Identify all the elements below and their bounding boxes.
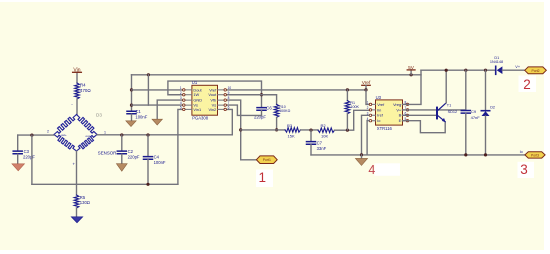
ground (C3) xyxy=(12,164,25,171)
svg-text:Port2: Port2 xyxy=(531,69,539,73)
wire: R2 to XTR pin2 xyxy=(335,110,370,130)
resistor R3 15K xyxy=(285,123,301,139)
node: C1 tap xyxy=(130,104,133,107)
U1 pin names xyxy=(193,87,202,112)
svg-text:2: 2 xyxy=(180,91,182,95)
node: C4 tap xyxy=(146,133,149,136)
svg-text:1: 1 xyxy=(259,170,267,185)
svg-text:Iref: Iref xyxy=(377,113,384,118)
U1 pin numbers right 10-6 xyxy=(228,86,232,110)
svg-text:R1: R1 xyxy=(350,101,355,105)
wire: XTR pin8 Vreg riser xyxy=(403,70,422,104)
bridge arm top-right xyxy=(77,115,98,135)
svg-text:2: 2 xyxy=(367,106,369,110)
IC U3 XTR116 xyxy=(376,95,403,131)
node: C6/Vout junction xyxy=(260,93,263,96)
wire: PGA pin2 loop to C6 xyxy=(168,81,262,107)
wire: V+ top rail (right section) xyxy=(421,69,495,71)
svg-text:D2: D2 xyxy=(490,106,495,110)
svg-text:1N4148: 1N4148 xyxy=(490,60,503,64)
wire: R5 to ground xyxy=(76,208,78,217)
resistor R5 130Ω xyxy=(74,195,90,208)
wire: R10 bottom xyxy=(276,117,278,129)
svg-text:Vin1: Vin1 xyxy=(193,107,201,112)
wire: ground/return rail (bottom right) xyxy=(311,154,525,156)
resistor R1 100K xyxy=(345,90,359,130)
svg-text:R4: R4 xyxy=(80,83,86,88)
ground (XTR) xyxy=(355,155,367,166)
power port Vin (top-left) xyxy=(73,67,82,73)
wire: PGA pin9 Vout to R10 xyxy=(227,95,277,105)
svg-text:C6: C6 xyxy=(266,105,272,110)
resistor R10 100KΩ xyxy=(274,104,290,117)
svg-text:1: 1 xyxy=(180,86,182,90)
svg-text:Iin: Iin xyxy=(377,107,381,112)
wire: bridge bottom to R5 xyxy=(76,151,78,195)
svg-text:V+: V+ xyxy=(515,65,521,69)
svg-text:100KΩ: 100KΩ xyxy=(279,109,290,113)
node: C7 tap xyxy=(309,129,312,132)
wire: collector to rail xyxy=(445,70,447,103)
svg-text:47nF: 47nF xyxy=(471,115,481,120)
svg-text:1: 1 xyxy=(104,131,106,135)
svg-text:10K: 10K xyxy=(321,134,328,139)
wire: bridge supply feed from power to R4 xyxy=(76,72,78,83)
wire: PGA pin8 to Port1 drop xyxy=(227,100,241,160)
U1 pins left xyxy=(182,90,192,110)
white patch 3 xyxy=(518,162,535,178)
wire: XTR pin5 emitter loop xyxy=(403,121,446,133)
U1 pin numbers left 1-5 xyxy=(180,86,182,110)
node: C9 bottom xyxy=(464,153,467,156)
capacitor C2 220pF xyxy=(117,135,140,164)
svg-text:D1: D1 xyxy=(494,56,499,60)
wire: R4 to bridge top xyxy=(76,99,78,115)
svg-text:Vin: Vin xyxy=(73,67,80,73)
ground (PGA GND pin) xyxy=(152,119,162,125)
svg-text:C7: C7 xyxy=(317,141,323,146)
bridge arm bottom-left xyxy=(54,135,77,152)
node: D2 top xyxy=(484,69,487,72)
wire: XTR pin3 to ground xyxy=(362,115,370,155)
wire: PGA pin3 to ground stem xyxy=(157,100,182,119)
capacitor C9 47nF xyxy=(461,70,480,155)
wire: riser to PGA pin5 xyxy=(178,109,183,184)
wire: Vref to XTR pin1 xyxy=(366,90,369,105)
node: Vfb/R3 junction xyxy=(239,128,242,131)
capacitor C6 220pF xyxy=(254,105,272,119)
svg-text:Vref: Vref xyxy=(377,102,385,107)
sensor bridge D3 (four-arm strain gauge) xyxy=(54,115,97,152)
wire: to PGA pin1 xyxy=(132,89,183,91)
svg-text:2: 2 xyxy=(47,130,49,134)
svg-text:3: 3 xyxy=(180,96,182,100)
wire: bridge left output to C3 xyxy=(18,134,54,136)
white patch 2 xyxy=(519,76,537,93)
svg-text:2: 2 xyxy=(523,77,531,92)
node: D2 bottom xyxy=(484,153,487,156)
wire: C6 bottom to PGA pin7 xyxy=(227,105,262,115)
svg-text:R3: R3 xyxy=(287,123,293,128)
svg-text:E: E xyxy=(399,118,402,123)
power port 5V xyxy=(407,65,415,77)
svg-text:9: 9 xyxy=(228,91,230,95)
svg-text:PGA308: PGA308 xyxy=(192,115,209,120)
wire: XTR pin7 to C9 xyxy=(403,109,466,111)
port Port3 xyxy=(525,152,545,158)
resistor R4 470Ω xyxy=(75,83,92,99)
wire: 5V top rail (left section) xyxy=(132,74,422,76)
U1 pins right xyxy=(218,90,227,110)
svg-text:T1: T1 xyxy=(447,104,451,108)
svg-text:6: 6 xyxy=(228,106,230,110)
wire: Port1 stub xyxy=(241,159,257,161)
resistor R2 10K xyxy=(318,123,335,139)
svg-text:V+: V+ xyxy=(396,107,402,112)
ground (R5) xyxy=(71,217,82,223)
svg-text:XTR116: XTR116 xyxy=(377,126,393,131)
svg-text:220pF: 220pF xyxy=(23,155,35,160)
svg-text:SD12: SD12 xyxy=(448,110,458,114)
svg-text:1W: 1W xyxy=(193,92,199,97)
svg-text:8: 8 xyxy=(228,96,230,100)
node: C9 top xyxy=(464,69,467,72)
svg-text:15K: 15K xyxy=(288,134,295,139)
transistor T1 SD12 xyxy=(437,103,457,122)
svg-text:U3: U3 xyxy=(376,95,382,100)
svg-text:10: 10 xyxy=(228,86,232,90)
white patch 1 xyxy=(256,170,273,188)
svg-text:5V: 5V xyxy=(408,65,415,71)
svg-text:C4: C4 xyxy=(154,154,160,159)
wire: riser pin4 to rail xyxy=(147,75,149,105)
svg-text:C3: C3 xyxy=(24,149,30,154)
wire: XTR pin6 to base xyxy=(403,114,437,116)
svg-text:SENSOR: SENSOR xyxy=(98,150,117,155)
ground (C1) xyxy=(126,121,136,127)
ground (C2) xyxy=(116,164,127,172)
svg-text:Vout: Vout xyxy=(208,92,217,97)
port Port2 xyxy=(525,67,547,74)
svg-text:100nF: 100nF xyxy=(154,160,166,165)
svg-text:B: B xyxy=(399,113,402,118)
node: collector on rail xyxy=(445,69,448,72)
svg-text:U1: U1 xyxy=(192,80,198,85)
wire: 5V drop to C1 / pin1 xyxy=(131,75,133,111)
node: Vref corner xyxy=(364,88,367,91)
node: R1 bottom junction xyxy=(346,129,349,132)
svg-text:Vreg: Vreg xyxy=(393,102,401,107)
node: ground stem xyxy=(360,153,363,156)
power port Vref xyxy=(362,80,371,90)
U3 pins right xyxy=(403,104,409,120)
svg-text:1: 1 xyxy=(367,101,369,105)
node: C4 bottom on rail xyxy=(146,183,149,186)
svg-text:4: 4 xyxy=(368,163,375,177)
svg-text:3: 3 xyxy=(520,162,528,177)
svg-text:220pF: 220pF xyxy=(128,155,140,160)
svg-text:Io: Io xyxy=(377,118,380,123)
capacitor C3 220pF xyxy=(13,135,35,164)
wire: R3 feed line xyxy=(241,129,285,131)
svg-text:Vin2: Vin2 xyxy=(208,107,216,112)
capacitor C1 100nF xyxy=(127,109,148,121)
svg-text:Port3: Port3 xyxy=(531,153,539,157)
wire: bridge right output (Vin2 net) xyxy=(97,109,232,134)
svg-text:100K: 100K xyxy=(350,105,359,109)
bridge arm left-top xyxy=(54,115,77,135)
svg-text:out-: out- xyxy=(86,134,91,138)
wire: XTR pin4 to rail xyxy=(367,121,369,155)
svg-text:130Ω: 130Ω xyxy=(80,200,90,205)
capacitor C4 100nF xyxy=(144,135,166,184)
op-amp U1 PGA308 xyxy=(192,80,218,120)
node: pin1 tap xyxy=(130,88,133,91)
node: junction bridge-left net xyxy=(30,134,33,137)
node: riser tap on rail xyxy=(147,73,150,76)
wire: pin4 supply line xyxy=(132,104,183,106)
svg-text:D3: D3 xyxy=(96,113,102,118)
node: R10 bottom xyxy=(275,128,278,131)
svg-text:out+: out+ xyxy=(61,133,67,137)
bridge arm right-bottom xyxy=(77,135,98,152)
node: C2 tap xyxy=(120,133,123,136)
U3 pins left xyxy=(369,104,375,120)
svg-text:5: 5 xyxy=(180,106,182,110)
capacitor C7 33nF xyxy=(307,130,327,155)
node: R1 top xyxy=(346,88,349,91)
svg-text:Port1: Port1 xyxy=(263,158,271,162)
wire: Vref line from PGA pin10 xyxy=(227,89,366,91)
svg-text:470Ω: 470Ω xyxy=(80,88,91,93)
U3 pin numbers xyxy=(367,101,369,121)
svg-text:C2: C2 xyxy=(128,149,134,154)
svg-text:33nF: 33nF xyxy=(317,146,327,151)
U3 pin names xyxy=(377,102,385,123)
white patch 4 xyxy=(375,163,401,176)
wire: R3 to C7 node xyxy=(301,129,319,131)
svg-text:Io: Io xyxy=(520,150,523,154)
wire: bottom rail (Vin1 net) xyxy=(32,183,178,185)
wire: drop to bottom rail xyxy=(31,135,33,184)
svg-text:C9: C9 xyxy=(471,109,477,114)
svg-text:100nF: 100nF xyxy=(135,115,147,120)
diode D2 (zener to rail) xyxy=(481,70,495,155)
svg-text:R2: R2 xyxy=(321,123,327,128)
svg-text:C1: C1 xyxy=(135,109,141,114)
diode D1 1N4148 xyxy=(490,56,525,75)
port Port1 xyxy=(256,156,277,164)
